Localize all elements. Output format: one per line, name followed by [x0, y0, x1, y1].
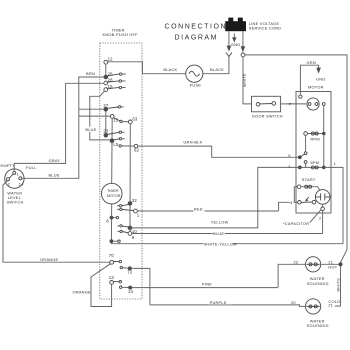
svg-text:14: 14: [128, 289, 134, 294]
wire rpm left down to speed contact: [305, 135, 307, 151]
wire purple into cold 20: [150, 305, 306, 307]
wire chevron to fuse, BLACK: [203, 57, 229, 74]
title CONNECTION DIAGRAM: [165, 24, 228, 42]
svg-text:MOTOR: MOTOR: [308, 85, 324, 90]
svg-text:62: 62: [134, 148, 140, 153]
svg-text:CONNECTION: CONNECTION: [165, 24, 228, 31]
svg-text:PURPLE: PURPLE: [210, 300, 227, 305]
capacitor bottom terminal 2: [321, 207, 325, 211]
wire motor 1 to white-yellow riser: [325, 167, 343, 243]
svg-text:SOLENOID: SOLENOID: [307, 323, 329, 328]
timer terminal 63: [128, 117, 138, 124]
motor ground symbol GRN: [300, 60, 325, 95]
label PINK: [202, 282, 214, 287]
wire motor terminal down: [323, 105, 325, 133]
wire blue from switch 14: [22, 77, 104, 178]
wire contact to 72: [123, 267, 129, 270]
wire white top run: [245, 55, 347, 250]
speed switch contacts: [304, 152, 307, 155]
contact 14: [120, 286, 122, 288]
speed switch arm from 5: [298, 156, 301, 159]
timer terminal 15: [104, 84, 126, 91]
wire fuse to timer 12: [107, 62, 185, 74]
motor box U1: [296, 92, 331, 214]
svg-text:RPM: RPM: [311, 136, 320, 141]
svg-text:SOLENOID: SOLENOID: [307, 281, 329, 286]
svg-text:BRN: BRN: [86, 71, 95, 76]
label BLUE mid: [213, 231, 225, 236]
svg-text:KNOB-PUSH OFF: KNOB-PUSH OFF: [103, 32, 139, 37]
wire 32 bus down: [129, 205, 131, 231]
svg-text:72: 72: [127, 270, 133, 275]
line voltage service cord plug: [225, 18, 281, 32]
wire branch to T5: [79, 115, 111, 117]
label YELLOW: [210, 220, 229, 225]
svg-text:BLACK: BLACK: [210, 67, 224, 72]
svg-text:14: 14: [19, 181, 24, 186]
label 4: [290, 200, 294, 205]
timer terminal T5: [110, 115, 122, 123]
wire T5 down to L5: [111, 118, 113, 139]
svg-text:BLACK: BLACK: [163, 67, 177, 72]
svg-text:MOTOR: MOTOR: [107, 194, 121, 198]
svg-text:13: 13: [109, 275, 115, 280]
wire white-yellow: [111, 243, 343, 244]
start switch: [298, 197, 316, 204]
svg-text:EMPTY: EMPTY: [1, 163, 16, 168]
wire start bracket to 4: [294, 187, 297, 203]
timer box dashed: [100, 43, 142, 299]
cold water solenoid L2: [306, 299, 329, 328]
wire contact to 62: [121, 145, 134, 147]
label RED: [194, 207, 205, 212]
timer terminal 32: [117, 198, 137, 207]
contact 72: [120, 266, 122, 268]
RPM winding row: [304, 132, 325, 142]
wire timer motor down: [110, 204, 112, 241]
connector chevron: [226, 53, 232, 57]
timer terminal 62: [134, 144, 140, 152]
svg-text:BLUE: BLUE: [213, 231, 224, 236]
svg-text:23: 23: [103, 128, 109, 133]
svg-text:FUSE: FUSE: [190, 83, 202, 88]
svg-text:YELLOW: YELLOW: [211, 220, 229, 225]
timer terminal 26: [104, 72, 126, 79]
timer terminal 70: [109, 253, 122, 264]
wire rpm right bus: [323, 135, 325, 166]
wire white node down to cold: [334, 266, 341, 306]
svg-text:GND: GND: [316, 77, 325, 82]
svg-text:2: 2: [319, 216, 321, 221]
svg-text:8: 8: [106, 218, 109, 223]
wire red into 4: [279, 202, 298, 211]
wire red to motor 4: [137, 210, 278, 212]
timer terminal 12: [104, 57, 113, 65]
wire blue link 15 to L5: [90, 91, 111, 140]
wire gray from switch 1: [14, 83, 104, 171]
wire orange from switch 2: [3, 181, 110, 263]
water level switch S2: [5, 169, 25, 204]
svg-text:32: 32: [132, 198, 138, 203]
timer terminal 72: [127, 267, 133, 275]
svg-text:*CAPACITOR: *CAPACITOR: [283, 221, 309, 226]
wire yellow: [132, 167, 300, 228]
svg-text:27: 27: [103, 103, 109, 108]
svg-text:GRN: GRN: [307, 60, 316, 65]
svg-text:L5: L5: [113, 142, 119, 147]
wire white slant to solenoid node: [341, 250, 348, 263]
svg-text:SWITCH: SWITCH: [7, 199, 24, 204]
svg-text:FULL: FULL: [26, 165, 37, 170]
wire branch to 27: [79, 108, 104, 110]
svg-text:P: P: [289, 102, 292, 107]
svg-text:ORANGE: ORANGE: [40, 257, 59, 262]
wire white down to door switch: [243, 57, 252, 104]
svg-text:PINK: PINK: [202, 282, 212, 287]
grn-blk contact: [119, 145, 121, 147]
svg-text:HOT: HOT: [328, 265, 337, 270]
START winding: [297, 177, 319, 190]
svg-text:DOOR SWITCH: DOOR SWITCH: [252, 113, 283, 118]
svg-text:1: 1: [334, 161, 336, 166]
wire L5 down to timer motor: [111, 143, 113, 184]
wire grn-blk to motor 5: [138, 146, 298, 157]
motor right terminal: [322, 103, 325, 106]
wire 27 down to 23: [105, 111, 107, 133]
svg-text:6PM: 6PM: [311, 160, 320, 165]
svg-text:TIMER: TIMER: [107, 189, 119, 193]
label 21 cold: [328, 303, 335, 308]
timer terminal 28: [104, 78, 126, 85]
svg-text:WHITE: WHITE: [335, 278, 340, 292]
wire T5 contact to 63: [122, 121, 129, 123]
svg-text:3: 3: [288, 164, 290, 169]
label GRN-BLK: [183, 139, 205, 144]
svg-text:70: 70: [109, 253, 115, 258]
svg-text:SERVICE CORD: SERVICE CORD: [249, 26, 282, 31]
label BLUE link: [85, 127, 97, 132]
wire contact to 14: [122, 286, 129, 288]
main winding row: [298, 166, 325, 169]
svg-text:START: START: [302, 177, 316, 182]
wire 63 down to 32: [129, 124, 131, 202]
svg-text:WHITE-YELLOW: WHITE-YELLOW: [204, 241, 237, 246]
gnd arrow at plug: [231, 34, 240, 48]
capacitor C1: [315, 190, 330, 205]
svg-text:DIAGRAM: DIAGRAM: [175, 35, 219, 42]
svg-text:1: 1: [137, 212, 140, 217]
svg-text:GRN-BLK: GRN-BLK: [183, 139, 202, 144]
wire 12 down to 26: [105, 64, 107, 75]
timer terminal 10 yellow: [117, 225, 137, 235]
svg-text:ORANGE: ORANGE: [73, 289, 92, 294]
hot water solenoid L1: [306, 257, 329, 286]
node white solenoid junction: [339, 263, 342, 266]
label PURPLE: [209, 300, 231, 305]
svg-text:1: 1: [17, 171, 19, 176]
svg-text:BLUE: BLUE: [49, 172, 60, 177]
wire pink riser to hot 22: [278, 264, 305, 287]
timer motor M1: [101, 183, 122, 204]
svg-text:21: 21: [328, 303, 333, 308]
svg-text:RED: RED: [194, 207, 203, 212]
timer terminal 13: [109, 275, 122, 284]
svg-text:GRAY: GRAY: [49, 158, 61, 163]
wire blue to capacitor: [132, 233, 323, 235]
wire capacitor to blue: [322, 211, 324, 234]
wire plug left pin down: [228, 31, 230, 46]
timer terminal 27: [103, 103, 123, 111]
wire door switch to motor P: [281, 103, 306, 105]
timer terminal 9 blue: [117, 230, 134, 240]
timer terminal L5: [110, 138, 125, 148]
label WHITE-YELLOW: [204, 241, 238, 246]
wire orange link 70 to 13: [91, 264, 112, 307]
svg-text:63: 63: [132, 117, 138, 122]
timer terminal 23: [103, 128, 124, 137]
arrowhead right pin: [241, 47, 244, 52]
svg-text:20: 20: [291, 300, 296, 305]
timer terminal red 1: [117, 208, 140, 217]
wire plug right pin down: [242, 31, 244, 47]
junction 8: [106, 216, 118, 223]
junction timer motor bottom: [110, 240, 120, 243]
arrowhead left pin: [227, 46, 230, 51]
door switch S1: [252, 96, 283, 118]
node white junction: [241, 53, 245, 57]
motor winding circle: [307, 98, 319, 110]
timer terminal 14: [128, 286, 134, 294]
svg-text:WHITE: WHITE: [242, 73, 247, 87]
wire 72 to purple: [131, 268, 150, 305]
svg-text:22: 22: [294, 260, 299, 265]
wire hot 21 to white node: [321, 263, 339, 265]
svg-text:12: 12: [108, 57, 114, 62]
svg-text:BLUE: BLUE: [85, 127, 96, 132]
wire pink to hot solenoid: [132, 287, 278, 289]
motor gnd terminal: [299, 95, 302, 98]
svg-text:GND: GND: [231, 42, 240, 47]
svg-text:2: 2: [8, 181, 10, 186]
fuse F1: [186, 65, 203, 88]
